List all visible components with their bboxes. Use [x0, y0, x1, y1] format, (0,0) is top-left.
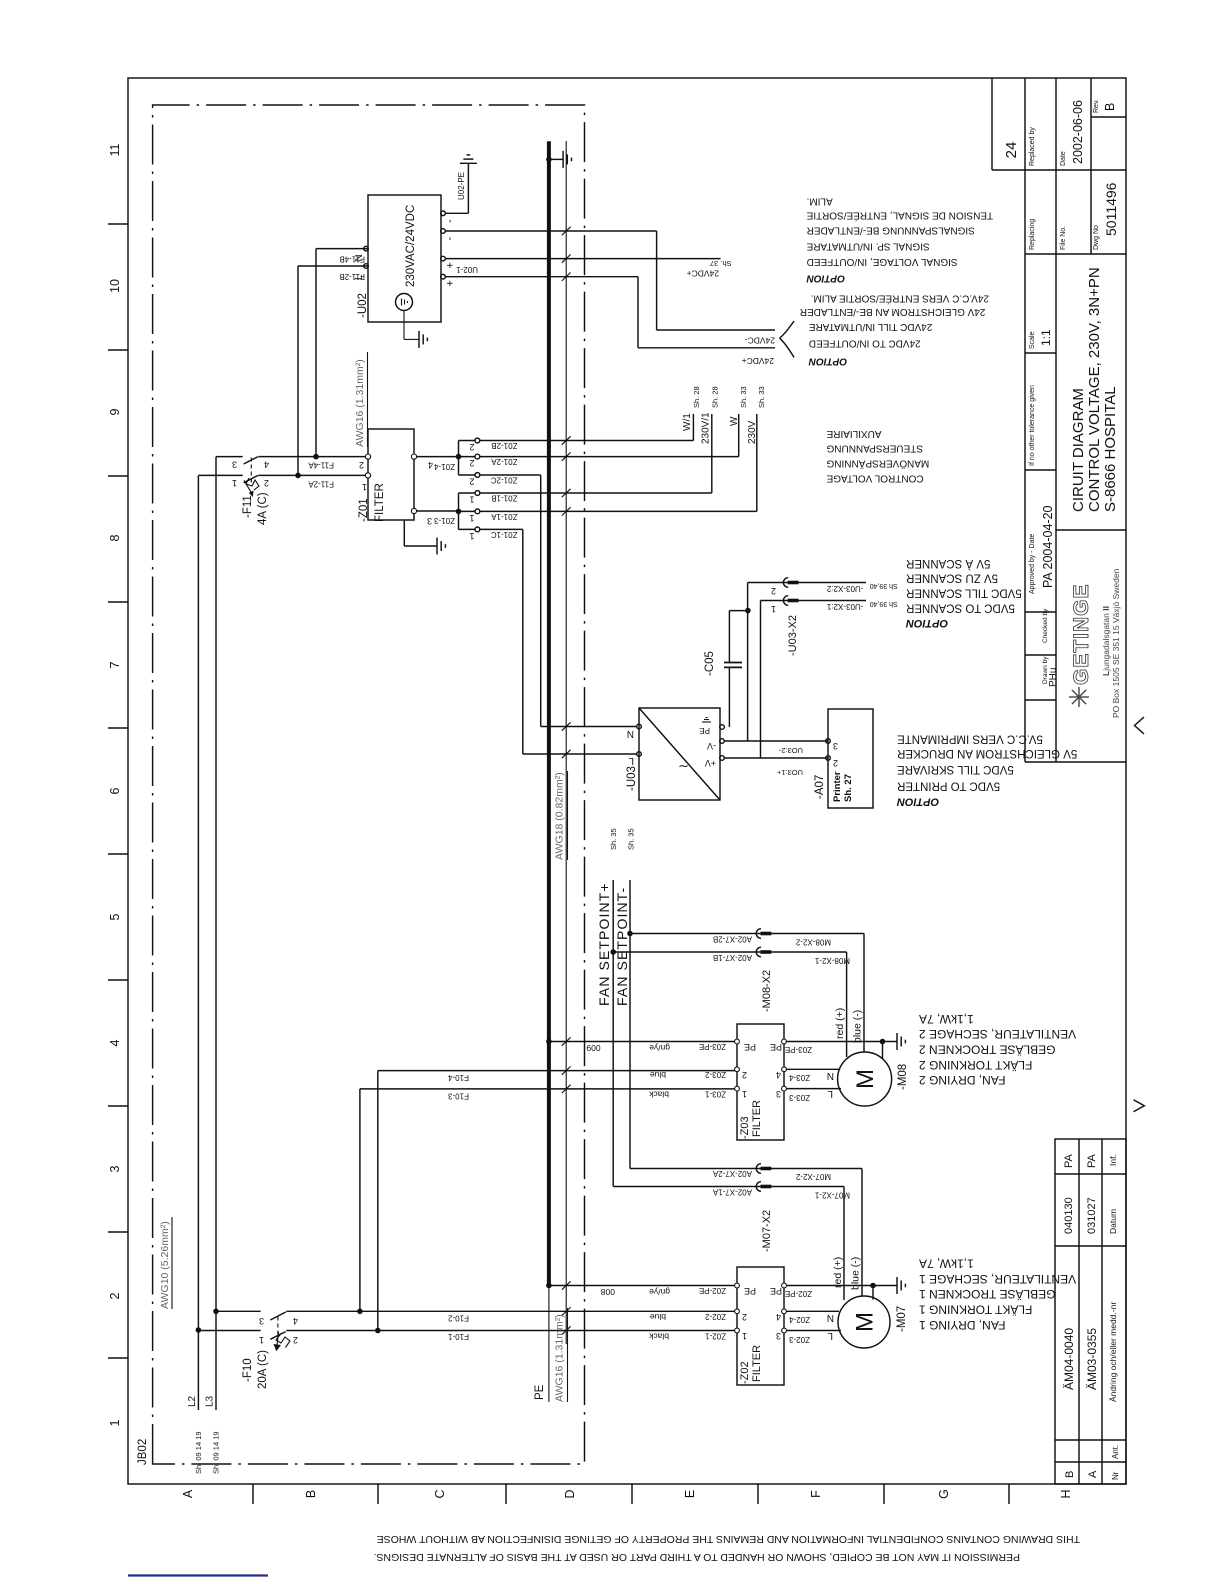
- svg-text:24VDC+: 24VDC+: [687, 269, 719, 279]
- svg-text:W/1: W/1: [682, 413, 693, 431]
- svg-text:3: 3: [259, 1316, 264, 1326]
- F11 mechanical link dashes: [250, 457, 252, 483]
- wire 24VDC- from U02 pin 2: [445, 230, 656, 232]
- svg-text:5VDC TO PRINTER: 5VDC TO PRINTER: [897, 779, 1000, 791]
- svg-text:6: 6: [108, 787, 122, 794]
- svg-text:D: D: [563, 1489, 577, 1498]
- svg-text:5VDC TO SCANNER: 5VDC TO SCANNER: [906, 601, 1015, 613]
- wire from Z01-2A to W Sh.33: [480, 456, 739, 458]
- svg-text:Inf.: Inf.: [1108, 1154, 1118, 1166]
- title block sheet-number cell border: [991, 78, 993, 170]
- svg-text:black: black: [648, 1090, 669, 1100]
- svg-text:-M07: -M07: [896, 1306, 908, 1332]
- junction F10 output to Z03 blue branch: [375, 1328, 381, 1334]
- svg-text:Z01-3: Z01-3: [434, 516, 455, 525]
- svg-text:Ant.: Ant.: [1111, 1445, 1120, 1459]
- filter Z03 box: [737, 1024, 784, 1140]
- svg-text:F10-1: F10-1: [448, 1332, 469, 1341]
- svg-text:1: 1: [742, 1331, 747, 1341]
- svg-text:5VDC TILL SKRIVARE: 5VDC TILL SKRIVARE: [897, 763, 1014, 775]
- svg-text:M: M: [852, 1069, 879, 1089]
- svg-text:Approved by - Date: Approved by - Date: [1029, 534, 1036, 594]
- svg-text:1: 1: [362, 482, 367, 492]
- svg-text:5011496: 5011496: [1103, 182, 1119, 236]
- svg-text:OPTION: OPTION: [806, 272, 845, 283]
- F10 pole 1 blade: [270, 1332, 285, 1340]
- svg-text:Sh. 33: Sh. 33: [739, 386, 748, 408]
- Z02 pin 1 top circle: [735, 1328, 740, 1333]
- revision table outline: [1055, 1139, 1126, 1484]
- svg-text:M07-X2-2: M07-X2-2: [795, 1172, 831, 1181]
- svg-text:1,1kW, 7A: 1,1kW, 7A: [919, 1257, 974, 1271]
- svg-text:3: 3: [776, 1089, 781, 1099]
- svg-text:JB02: JB02: [137, 1439, 149, 1465]
- svg-text:1: 1: [771, 604, 776, 614]
- wire Z02 PE bottom to motor ground: [786, 1285, 897, 1287]
- wire PE into motor M07: [872, 1286, 874, 1300]
- svg-text:Z01-4: Z01-4: [434, 462, 455, 471]
- sheet fold mark chevron up: [1135, 717, 1145, 734]
- svg-text:A: A: [181, 1489, 195, 1498]
- terminal Z01-1C stub and circle: [459, 528, 476, 530]
- wire from Z01-1C to U03 L: [480, 528, 523, 530]
- F11 pole 2 output wire to Z01 pin 2: [259, 456, 369, 458]
- svg-text:F10-4: F10-4: [448, 1073, 469, 1082]
- svg-text:gn/ye: gn/ye: [649, 1043, 670, 1053]
- gn/ye PE branch junction on PE bus for Z02: [546, 1283, 552, 1289]
- svg-text:FAN, DRYING 1: FAN, DRYING 1: [919, 1318, 1006, 1332]
- svg-text:STEUERSPANNUNG: STEUERSPANNUNG: [826, 443, 923, 454]
- frame column ticks (top): [108, 1357, 128, 1359]
- svg-text:PE: PE: [534, 1384, 546, 1400]
- wire U02-PE from pin 1 to ground: [445, 212, 468, 214]
- svg-text:24: 24: [1003, 142, 1020, 159]
- branch wire to Z03 blue: [377, 1071, 379, 1331]
- terminal Z01-1A stub and circle: [459, 510, 476, 512]
- svg-text:A02-X7-2A: A02-X7-2A: [712, 1169, 752, 1178]
- branch wire to Z03 black: [359, 1089, 361, 1311]
- svg-text:GEBLÄSE TROCKNEN 1: GEBLÄSE TROCKNEN 1: [919, 1287, 1056, 1301]
- F11 pole 1 output wire to Z01 pin 1: [259, 474, 369, 476]
- svg-text:Z02-1: Z02-1: [705, 1332, 726, 1341]
- junction Z02 PE to motor M07: [870, 1283, 876, 1289]
- wire FAN SETPOINT+ horizontal: [612, 880, 614, 1187]
- svg-text:GEBLÄSE TROCKNEN 2: GEBLÄSE TROCKNEN 2: [919, 1043, 1056, 1057]
- U02 output pin circles: [441, 211, 446, 216]
- svg-text:PA 2004-04-20: PA 2004-04-20: [1041, 505, 1055, 588]
- svg-text:UO3:1+: UO3:1+: [776, 768, 803, 777]
- svg-text:AWG18 (0.82mm²): AWG18 (0.82mm²): [554, 772, 566, 860]
- 24VDC cable exit brace: [780, 321, 795, 357]
- PE bus ground junction: [546, 157, 552, 163]
- U03 pin PE circle: [720, 725, 725, 730]
- wire U03 +V to A07 pin 2: [724, 757, 828, 759]
- svg-text:PE: PE: [699, 726, 710, 735]
- svg-text:Replacing: Replacing: [1029, 219, 1036, 250]
- svg-text:2: 2: [469, 477, 474, 487]
- svg-text:AUXILIAIRE: AUXILIAIRE: [826, 428, 881, 439]
- svg-text:-F10: -F10: [242, 1358, 254, 1382]
- svg-text:FILTER: FILTER: [751, 1345, 763, 1382]
- svg-text:VENTILATEUR, SECHAGE 1: VENTILATEUR, SECHAGE 1: [919, 1272, 1076, 1286]
- wire from Z01-1B to 230V/1 Sh.28: [480, 492, 712, 494]
- connector M07-X2-2: [756, 1164, 761, 1174]
- branch wire to U02 L pin: [297, 266, 299, 475]
- svg-text:PHu: PHu: [1048, 668, 1059, 687]
- Z02 pin PE bottom circle: [782, 1283, 787, 1288]
- filter Z02 box: [737, 1267, 784, 1385]
- svg-text:-U03-X2:1: -U03-X2:1: [826, 602, 863, 611]
- svg-text:GETINGE: GETINGE: [1070, 583, 1093, 685]
- svg-text:-F11: -F11: [242, 495, 254, 518]
- svg-text:L: L: [628, 755, 634, 766]
- Z02 pin PE top circle: [735, 1283, 740, 1288]
- svg-text:Z03-2: Z03-2: [705, 1070, 726, 1079]
- motor M08 circle: [838, 1052, 892, 1106]
- svg-text:A: A: [1087, 1470, 1099, 1478]
- filter Z01 box: [368, 429, 414, 520]
- terminal bus feed junction 1A: [456, 509, 462, 515]
- svg-text:Z03-1: Z03-1: [705, 1090, 726, 1099]
- svg-text:-Z03: -Z03: [739, 1116, 751, 1139]
- svg-text:4: 4: [264, 460, 269, 470]
- junction F11 to U02 branch N: [313, 454, 319, 460]
- Z03 pin 2 top circle: [735, 1067, 740, 1072]
- wire red(+) into motor M07: [843, 1187, 845, 1301]
- svg-text:-M07-X2: -M07-X2: [761, 1210, 773, 1252]
- svg-text:gn/ye: gn/ye: [649, 1287, 670, 1297]
- svg-text:B: B: [1103, 103, 1117, 111]
- PE bus thin extension: [548, 1284, 550, 1402]
- terminal bus feed junction 2A: [456, 454, 462, 460]
- svg-text:THIS DRAWING CONTAINS CONFIDEN: THIS DRAWING CONTAINS CONFIDENTIAL INFOR…: [377, 1533, 1080, 1545]
- svg-text:2: 2: [742, 1070, 747, 1080]
- svg-text:-Z02: -Z02: [739, 1361, 751, 1384]
- svg-text:A02-X7-1A: A02-X7-1A: [712, 1188, 752, 1197]
- wire red(+) into motor M08: [846, 952, 848, 1057]
- wire U03-X2:2 vertical: [748, 582, 866, 584]
- svg-text:A02-X7-2B: A02-X7-2B: [713, 935, 752, 944]
- svg-text:-V: -V: [707, 741, 716, 751]
- terminal Z01-1B stub and circle: [459, 492, 476, 494]
- svg-text:Z01-1C: Z01-1C: [491, 530, 518, 539]
- svg-text:4: 4: [108, 1039, 122, 1046]
- svg-text:red (+): red (+): [834, 1008, 846, 1039]
- frame row ticks (left): [252, 1484, 254, 1504]
- svg-text:MANÖVERSPÄNNING: MANÖVERSPÄNNING: [826, 457, 929, 469]
- svg-text:230VAC/24VDC: 230VAC/24VDC: [405, 205, 417, 287]
- F11 trip arrow: [244, 480, 252, 493]
- svg-text:24VDC TO IN/OUTFEED: 24VDC TO IN/OUTFEED: [809, 338, 921, 349]
- svg-text:FILTER: FILTER: [751, 1100, 763, 1137]
- svg-text:-U03: -U03: [626, 766, 638, 791]
- power supply U03 box: [639, 708, 720, 800]
- svg-text:24VDC-: 24VDC-: [745, 336, 775, 346]
- svg-text:M: M: [852, 1312, 879, 1332]
- wire M07-X2-2 vertical: [630, 1168, 862, 1170]
- connector M08-X2-1: [756, 947, 761, 957]
- F10 thermal release: [276, 1334, 290, 1348]
- junction F11 to U02 branch L: [295, 473, 301, 479]
- svg-text:24VDC TILL IN/UTMATARE: 24VDC TILL IN/UTMATARE: [808, 321, 932, 332]
- svg-text:2: 2: [469, 442, 474, 452]
- F11 pole 2 blade: [244, 457, 259, 464]
- svg-text:3: 3: [108, 1165, 122, 1172]
- GETINGE logo flower symbol: [1069, 687, 1089, 707]
- svg-text:Z01-2B: Z01-2B: [491, 441, 517, 450]
- U02 shield wire to ground: [403, 311, 405, 340]
- svg-text:2: 2: [293, 1335, 298, 1345]
- svg-text:SIGNAL VOLTAGE, IN/OUTFEED: SIGNAL VOLTAGE, IN/OUTFEED: [807, 256, 958, 267]
- junction F10 output to Z03 black branch: [357, 1309, 363, 1315]
- wire U03 -V to A07 pin 3: [724, 740, 828, 742]
- svg-text:008: 008: [601, 1287, 615, 1297]
- boundary slashes on U03 feed wires: [562, 722, 571, 730]
- svg-text:M08-X2-2: M08-X2-2: [795, 938, 831, 947]
- svg-text:PE: PE: [744, 1042, 756, 1052]
- terminal Z01-2A stub and circle: [459, 456, 476, 458]
- svg-text:2002-06-06: 2002-06-06: [1071, 100, 1085, 164]
- svg-text:-M08: -M08: [897, 1064, 909, 1090]
- svg-text:+: +: [445, 262, 457, 268]
- wire L3 drop into F11: [216, 456, 243, 458]
- svg-text:Z03-4: Z03-4: [789, 1073, 810, 1082]
- svg-text:blue: blue: [650, 1312, 666, 1322]
- svg-text:ÄM03-0355: ÄM03-0355: [1085, 1328, 1099, 1390]
- svg-text:-: -: [444, 237, 456, 241]
- boundary slash on gn/ye Z03: [562, 1037, 571, 1045]
- svg-text:2: 2: [469, 458, 474, 468]
- svg-text:UO3:2-: UO3:2-: [778, 746, 803, 755]
- PE bus ground symbol: [562, 151, 564, 168]
- svg-text:Sh. 09 14 19: Sh. 09 14 19: [194, 1431, 203, 1474]
- svg-text:Ljungadalsgatan II: Ljungadalsgatan II: [1101, 606, 1111, 676]
- connector -U03-X2 terminal 1: [783, 596, 788, 606]
- U03 pin -V circle: [720, 739, 725, 744]
- svg-text:E: E: [683, 1490, 697, 1498]
- svg-text:OPTION: OPTION: [896, 795, 939, 807]
- U03 diagonal: [639, 708, 720, 800]
- junction Z03 PE to motor M08: [880, 1039, 886, 1045]
- svg-text:VENTILATEUR, SECHAGE 2: VENTILATEUR, SECHAGE 2: [919, 1027, 1076, 1041]
- svg-text:-Z01: -Z01: [358, 498, 370, 522]
- svg-text:Z01-1A: Z01-1A: [491, 512, 518, 521]
- svg-text:Z02-PE: Z02-PE: [785, 1289, 812, 1298]
- svg-text:C: C: [433, 1489, 447, 1498]
- svg-text:Sh. 35: Sh. 35: [609, 828, 618, 850]
- terminal group bus 230V secondary 1: [458, 493, 460, 529]
- svg-text:File No.: File No.: [1060, 226, 1067, 250]
- svg-text:L: L: [354, 274, 365, 280]
- svg-text:Z02-2: Z02-2: [705, 1312, 726, 1321]
- svg-text:FLÄKT TORKNING 1: FLÄKT TORKNING 1: [919, 1303, 1033, 1317]
- svg-text:Sh. 35: Sh. 35: [627, 828, 636, 850]
- svg-text:CONTROL VOLTAGE, 230V, 3N+PN: CONTROL VOLTAGE, 230V, 3N+PN: [1086, 267, 1103, 512]
- ground symbol at motor M08: [896, 1033, 898, 1050]
- svg-text:-: -: [444, 219, 456, 223]
- wire Z02-3 to motor L: [786, 1330, 841, 1332]
- U02 pin N circle: [364, 246, 369, 251]
- svg-text:CONTROL VOLTAGE: CONTROL VOLTAGE: [826, 472, 923, 483]
- svg-text:Z02-PE: Z02-PE: [699, 1286, 726, 1295]
- Z02 pin 3 bottom circle: [782, 1328, 787, 1333]
- svg-text:N: N: [827, 1070, 834, 1081]
- PE bus ground stem: [549, 158, 563, 160]
- svg-text:Checked by: Checked by: [1042, 608, 1049, 643]
- svg-text:1: 1: [469, 531, 474, 541]
- svg-text:24V.C.C VERS ENTRÉE/SORTIE ALI: 24V.C.C VERS ENTRÉE/SORTIE ALIM.: [811, 293, 989, 306]
- wire gn/ye to Z02: [549, 1285, 739, 1287]
- boundary slashes on 24VDC wires: [562, 227, 571, 235]
- svg-text:Sh. 27: Sh. 27: [843, 774, 854, 802]
- svg-text:L: L: [827, 1330, 833, 1341]
- svg-text:F11-4A: F11-4A: [308, 461, 334, 470]
- svg-text:PO Box 1505 SE 351 15 Växjö Sw: PO Box 1505 SE 351 15 Växjö Sweden: [1111, 568, 1121, 718]
- svg-text:-U02: -U02: [357, 293, 369, 318]
- svg-text:3: 3: [232, 460, 237, 470]
- svg-text:F11-2A: F11-2A: [308, 480, 334, 489]
- U03 internal ground at PE pin: [702, 721, 711, 723]
- F10 pole 2 blade: [270, 1312, 286, 1320]
- svg-text:FLÄKT TORKNING 2: FLÄKT TORKNING 2: [919, 1058, 1033, 1072]
- boundary slash on gn/ye Z02: [562, 1281, 571, 1289]
- revision table horizontal dividers: [1078, 1139, 1080, 1484]
- wire Z03-3 to motor L: [786, 1088, 841, 1090]
- wire Z03 PE bottom to motor ground: [786, 1041, 897, 1043]
- svg-text:1: 1: [742, 1089, 747, 1099]
- svg-text:Z03-PE: Z03-PE: [699, 1042, 726, 1051]
- svg-text:PE: PE: [770, 1042, 782, 1052]
- svg-text:Sh. 28: Sh. 28: [692, 386, 701, 408]
- svg-text:M08-X2-1: M08-X2-1: [814, 956, 850, 965]
- wire L3 horizontal feed: [215, 457, 217, 1410]
- svg-text:10: 10: [108, 279, 122, 293]
- Z01 pin 2 circle: [365, 454, 370, 459]
- svg-text:031027: 031027: [1086, 1197, 1098, 1234]
- ground symbol at motor M07: [896, 1277, 898, 1294]
- svg-text:1: 1: [232, 478, 237, 488]
- wire +V branch to U03-X2:1: [760, 601, 762, 759]
- svg-text:Sh. 33: Sh. 33: [757, 386, 766, 408]
- svg-text:Date: Date: [1060, 151, 1067, 166]
- svg-text:blue: blue: [650, 1070, 666, 1080]
- svg-text:PERMISSION IT MAY NOT BE COPIE: PERMISSION IT MAY NOT BE COPIED, SHOWN O…: [374, 1551, 1020, 1563]
- svg-text:blue (-): blue (-): [852, 1010, 864, 1043]
- svg-text:2: 2: [264, 478, 269, 488]
- svg-text:Nr: Nr: [1111, 1471, 1120, 1480]
- svg-text:+V: +V: [705, 758, 716, 768]
- revision table vertical dividers: [1055, 1461, 1126, 1463]
- svg-text:11: 11: [108, 143, 122, 156]
- junction setpoint+ to M08-X2-1: [610, 949, 616, 955]
- svg-text:G: G: [937, 1489, 951, 1499]
- wire from Z01-1A to 230V Sh.33: [480, 510, 757, 512]
- boundary slashes on 230V wires: [562, 436, 571, 444]
- svg-text:Rev.: Rev.: [1093, 99, 1100, 113]
- connector M08-X2-2: [756, 929, 761, 939]
- svg-text:U02-PE: U02-PE: [457, 172, 466, 200]
- title block horizontal dividers: [1024, 78, 1026, 762]
- Z01 pin 3 circle: [411, 508, 416, 513]
- Z03 pin 3 bottom circle: [782, 1086, 787, 1091]
- svg-text:B: B: [1064, 1471, 1076, 1478]
- svg-text:230V: 230V: [747, 420, 758, 444]
- svg-text:ALIM.: ALIM.: [807, 196, 833, 207]
- motor M07 circle: [838, 1296, 890, 1348]
- svg-text:FAN, DRYING 2: FAN, DRYING 2: [919, 1073, 1006, 1087]
- svg-text:Sh 39,40: Sh 39,40: [870, 582, 898, 589]
- Z02 pin 4 bottom circle: [782, 1309, 787, 1314]
- wire blue(-) into motor M07: [861, 1169, 863, 1297]
- wire Z01 pin 4 to terminal bus: [417, 456, 459, 458]
- svg-text:3: 3: [833, 741, 838, 751]
- svg-text:2: 2: [833, 758, 838, 768]
- svg-text:ÄM04-0040: ÄM04-0040: [1062, 1328, 1076, 1390]
- capacitor C05 branch wire from PE pin: [728, 667, 730, 727]
- svg-text:24V GLEICHSTROM AN BE-/ENTLADE: 24V GLEICHSTROM AN BE-/ENTLADER: [800, 306, 986, 317]
- svg-text:N: N: [827, 1312, 834, 1323]
- wire PE into motor M08: [882, 1042, 884, 1059]
- svg-text:Z01-1B: Z01-1B: [491, 494, 517, 503]
- svg-text:red (+): red (+): [832, 1257, 844, 1288]
- svg-text:black: black: [648, 1332, 669, 1342]
- svg-text:H: H: [1059, 1489, 1073, 1498]
- JB02 enclosure dash-dot boundary: [153, 105, 585, 1464]
- wire gn/ye to Z03: [549, 1041, 739, 1043]
- svg-text:B: B: [304, 1490, 318, 1498]
- Z01 ground stem: [403, 520, 405, 546]
- svg-text:L: L: [827, 1088, 833, 1099]
- junction setpoint- to M08-X2-2: [627, 931, 633, 937]
- U02 pin L circle: [364, 264, 369, 269]
- svg-text:-M08-X2: -M08-X2: [761, 970, 773, 1012]
- svg-text:8: 8: [108, 534, 122, 541]
- svg-text:Sh. 37: Sh. 37: [710, 259, 732, 268]
- U03 pin +V circle: [720, 756, 725, 761]
- svg-text:1: 1: [469, 495, 474, 505]
- svg-text:5VDC TILL SCANNER: 5VDC TILL SCANNER: [906, 587, 1022, 599]
- svg-text:4: 4: [293, 1316, 298, 1326]
- svg-text:FAN SETPOINT+: FAN SETPOINT+: [596, 882, 612, 1006]
- svg-text:-U03-X2: -U03-X2: [787, 615, 799, 656]
- printer A07 box: [828, 709, 873, 808]
- wire Z01 pin 3 to terminal bus: [417, 510, 459, 512]
- Z01 pin 4 circle: [411, 454, 416, 459]
- svg-text:040130: 040130: [1063, 1197, 1075, 1234]
- svg-text:Z03-3: Z03-3: [789, 1093, 810, 1102]
- svg-text:5: 5: [108, 913, 122, 920]
- svg-text:-U03-X2:2: -U03-X2:2: [826, 584, 863, 593]
- svg-text:Sh. 09 14 19: Sh. 09 14 19: [212, 1431, 221, 1474]
- junction C05 on -V/X2 link: [745, 608, 751, 614]
- U03 pin N circle: [637, 724, 642, 729]
- Z03 pin 1 top circle: [735, 1086, 740, 1091]
- svg-text:-A07: -A07: [814, 775, 826, 799]
- circuit breaker F10 pole 2 wire upper: [216, 1310, 261, 1312]
- svg-text:AWG16 (1.31mm²): AWG16 (1.31mm²): [554, 1314, 566, 1402]
- svg-text:2: 2: [359, 460, 364, 470]
- svg-text:4A (C): 4A (C): [257, 492, 269, 525]
- svg-text:N: N: [627, 728, 634, 739]
- svg-text:2: 2: [771, 586, 776, 596]
- wire 230V/1 W/1 from Z01-2B: [480, 440, 694, 442]
- svg-text:4: 4: [776, 1070, 781, 1080]
- svg-text:3: 3: [427, 516, 432, 526]
- U02-PE ground symbol: [460, 162, 477, 164]
- sheet centering mark chevron down: [1134, 1100, 1145, 1112]
- U03 pin L circle: [637, 752, 642, 757]
- svg-text:2: 2: [742, 1312, 747, 1322]
